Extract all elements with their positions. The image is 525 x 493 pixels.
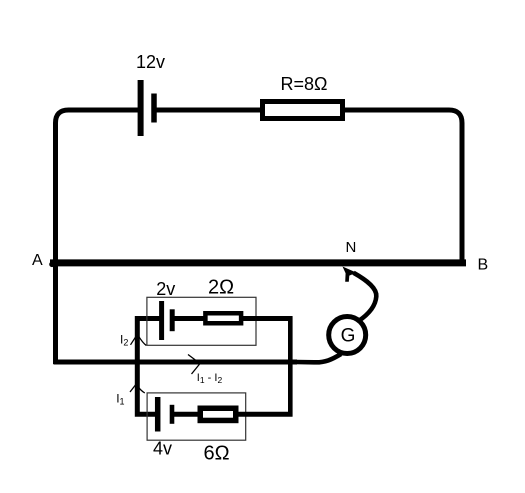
svg-text:4v: 4v: [153, 439, 172, 459]
resistor R: [263, 102, 343, 119]
wire left vertical + top-left corner to battery: [56, 110, 139, 364]
wire resistor to top-right corner down to B: [345, 110, 462, 260]
resistor 6ohm: [200, 408, 236, 420]
svg-text:2v: 2v: [156, 279, 175, 299]
battery B3 4v short plate: [170, 405, 175, 424]
battery B1 12v long plate: [138, 80, 144, 136]
current arrow I1: [130, 384, 145, 393]
svg-text:G: G: [341, 326, 356, 347]
svg-text:A: A: [32, 252, 43, 269]
battery B3 4v long plate: [155, 397, 161, 432]
battery B2 2v long plate: [159, 301, 164, 340]
box around 2v branch: [147, 297, 256, 345]
current arrow I1-I2 on middle wire: [188, 355, 200, 375]
wire 2v battery to resistor 2ohm: [172, 316, 206, 321]
battery B1 12v short plate: [151, 94, 157, 123]
arrowhead at N: [343, 267, 357, 282]
wire battery to resistor R: [154, 108, 262, 113]
wire middle horizontal from A branch: [54, 360, 298, 365]
current arrow I2: [131, 334, 147, 345]
box around 4v branch: [147, 393, 246, 440]
svg-text:6Ω: 6Ω: [204, 443, 230, 465]
node A dot: [49, 262, 55, 268]
wire middle vertical with corners to 2v and 4v branches: [137, 319, 161, 415]
wire right vertical of sub-circuit: [288, 316, 293, 416]
wire curve galvanometer to node N: [354, 273, 377, 321]
wire 6ohm resistor to right vertical: [238, 412, 293, 417]
resistor 2ohm: [205, 313, 241, 323]
svg-text:R=8Ω: R=8Ω: [281, 74, 328, 94]
wire 4v battery to resistor 6ohm: [172, 412, 202, 417]
galvanometer G circle: [329, 317, 366, 354]
svg-text:B: B: [478, 257, 489, 274]
battery B2 2v short plate: [170, 309, 175, 331]
svg-text:12v: 12v: [136, 52, 165, 72]
wire curve into galvanometer: [296, 354, 341, 362]
svg-text:N: N: [346, 239, 357, 256]
wire AB thick potentiometer line: [50, 259, 466, 266]
wire 2ohm resistor to right vertical: [243, 316, 293, 321]
svg-text:2Ω: 2Ω: [208, 277, 234, 299]
